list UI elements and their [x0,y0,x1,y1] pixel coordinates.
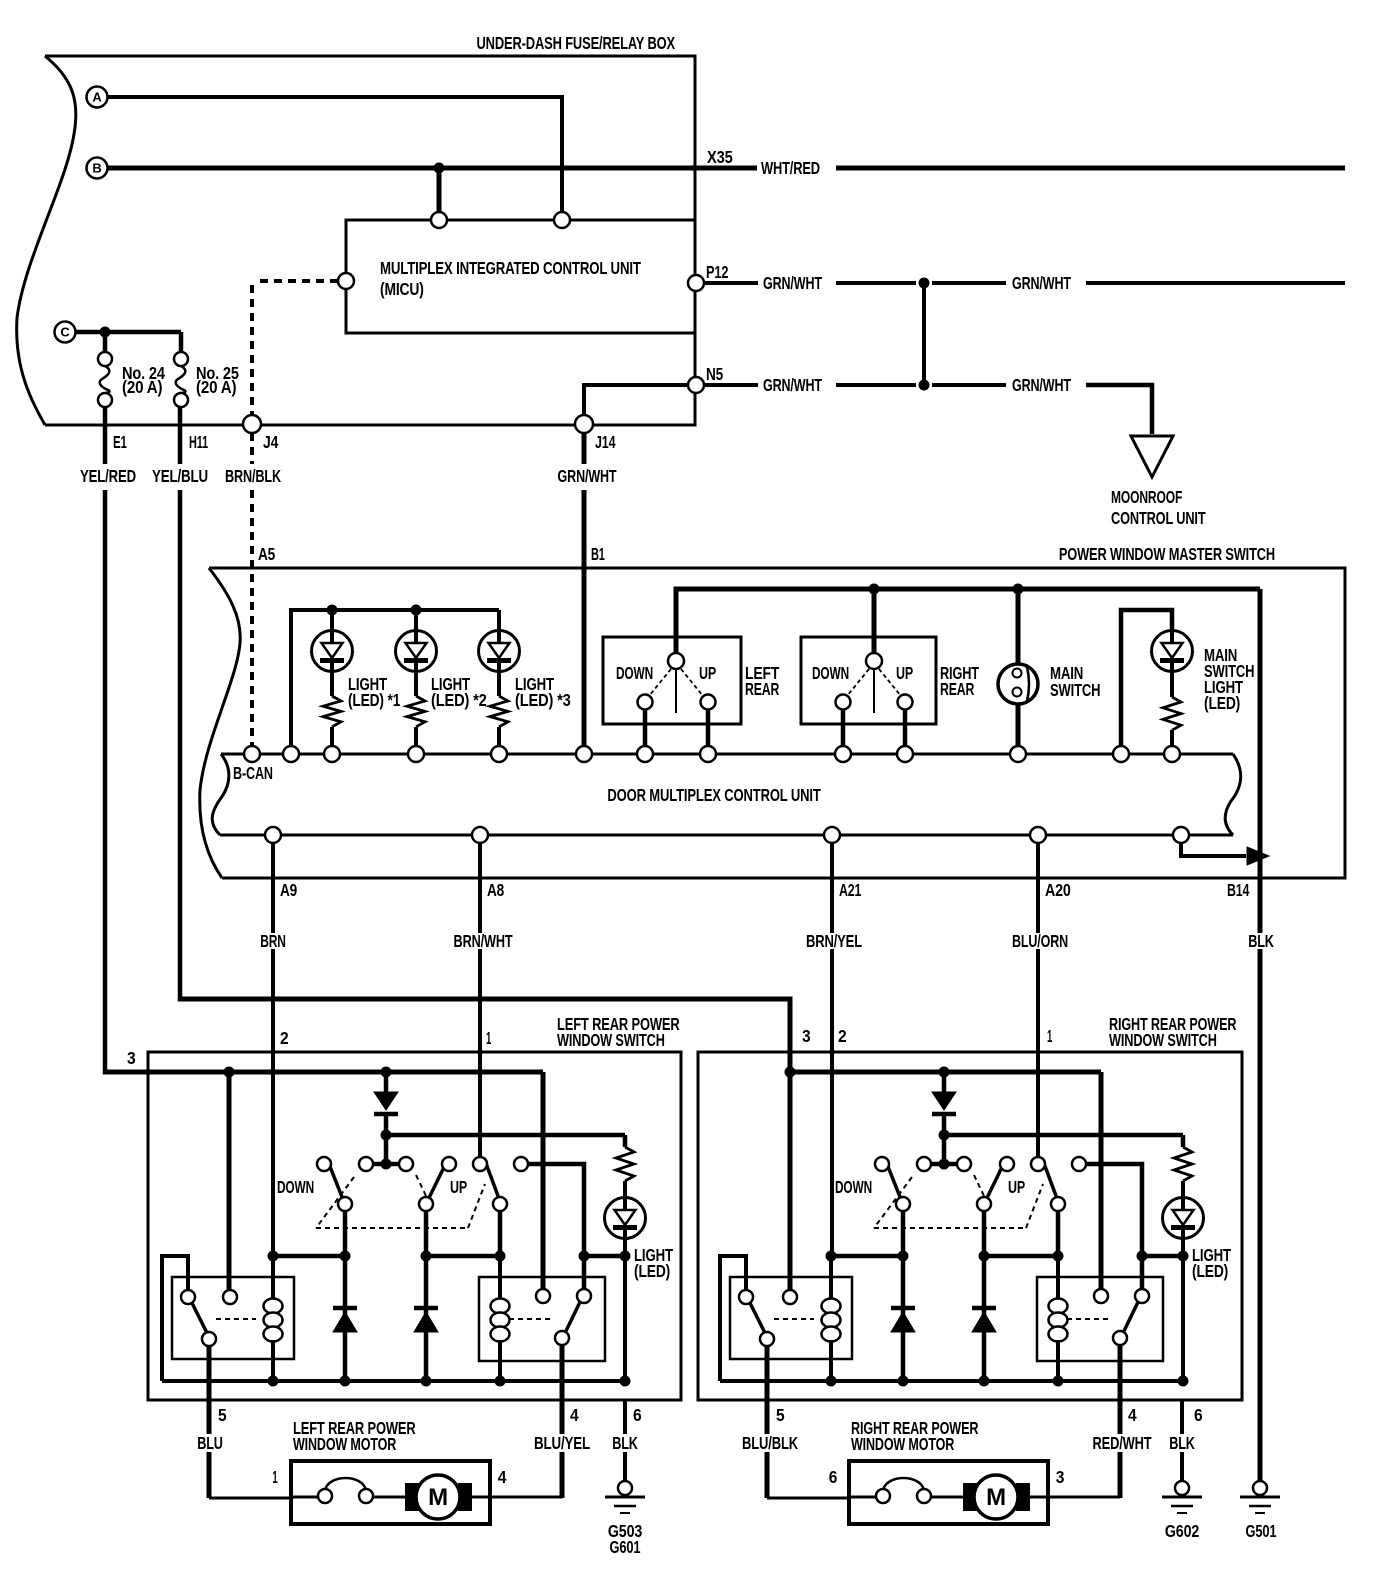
main switch light (LED) [1152,631,1193,672]
resistor of LED3 [497,671,501,696]
relay 1 moving contact (left) [202,1332,216,1346]
svg-text:A: A [92,90,102,105]
LEFT REAR POWER|WINDOW MOTOR box [291,1461,490,1524]
svg-text:BLU/YEL: BLU/YEL [534,1433,590,1453]
RIGHT REAR POWER|WINDOW MOTOR box [849,1461,1048,1524]
svg-text:GRN/WHT: GRN/WHT [763,273,822,293]
multiplex pin A20 [1030,827,1046,843]
svg-text:(LED) *2: (LED) *2 [431,690,487,710]
MICU pin (from B) [431,212,447,228]
resistor of main switch light [1170,671,1174,697]
svg-text:N5: N5 [706,364,723,384]
svg-text:E1: E1 [113,432,127,452]
svg-text:J14: J14 [595,432,616,452]
junction bus/relay B (left) [224,1067,235,1078]
svg-text:(LED) *1: (LED) *1 [348,690,401,710]
svg-text:1: 1 [1047,1026,1052,1046]
wire B14 to ground bus [1181,843,1246,856]
segment1 (left) [273,1254,345,1259]
svg-text:H11: H11 [189,432,208,452]
wire BLU/BLK to right motor [767,1497,849,1500]
svg-text:X35: X35 [707,147,733,167]
svg-text:UP: UP [450,1177,467,1197]
segment1 (right) [831,1254,903,1259]
wire left rear DOWN to unit [643,709,648,747]
contact circles (left) [317,1157,331,1171]
junction main switch [1013,584,1024,595]
switch arm right (right) [1042,1158,1059,1204]
MICU pin (from A) [554,212,570,228]
svg-text:J4: J4 [263,432,279,452]
svg-text:B14: B14 [1227,880,1250,900]
right rear switch lever [873,669,875,713]
svg-text:RED/WHT: RED/WHT [1093,1433,1152,1453]
svg-text:B: B [92,161,101,176]
svg-text:BLU/ORN: BLU/ORN [1012,931,1068,951]
ground G503/G601 [618,1481,632,1495]
resistor of light (left) [616,1147,634,1181]
relay 2 box (right) [1037,1277,1163,1361]
RIGHT REAR POWER|WINDOW MOTOR circuit breaker [849,1496,876,1499]
wire main switch to unit [1016,703,1021,747]
terminal B [87,158,108,179]
terminal 5 wire (right) [765,1346,770,1434]
svg-text:3: 3 [802,1026,811,1046]
svg-text:DOWN: DOWN [812,663,849,683]
wire A20 BLU/ORN [1036,843,1040,933]
relay 2 center contact (right) [1094,1289,1108,1303]
wire H11 YEL/BLU down [178,407,183,464]
relay 2 arm (right) [1124,1302,1138,1331]
wire bus corner down to relay [1099,1072,1104,1289]
wire left rear UP to unit [706,709,711,747]
junction on wire B [434,163,445,174]
svg-text:GRN/WHT: GRN/WHT [558,466,617,486]
svg-text:4: 4 [498,1467,507,1487]
svg-text:A8: A8 [487,880,504,900]
contact bridge (right) [924,1162,964,1167]
junction LED-segment (left) [620,1251,631,1262]
relay 2 coil (left) [498,1256,502,1300]
relay 1 contact B (left) [223,1290,237,1304]
multiplex pin LED1 [324,746,340,762]
multiplex pin (LED feed) [283,746,299,762]
light (LED) *1 [312,631,353,672]
svg-text:BLK: BLK [1169,1433,1195,1453]
svg-text:BRN/YEL: BRN/YEL [806,931,862,951]
multiplex pin light feed [1113,746,1129,762]
wire P12 GRN/WHT [704,281,758,285]
right rear power window switch box [698,1052,1242,1400]
fuse No.25 (20 A) [174,352,188,366]
left rear switch common contact [668,653,684,669]
svg-text:UP: UP [699,663,716,683]
svg-text:UNDER-DASH FUSE/RELAY BOX: UNDER-DASH FUSE/RELAY BOX [477,33,676,53]
fuse No.24 (20 A) [98,352,112,366]
svg-text:(LED): (LED) [1192,1261,1228,1281]
svg-text:4: 4 [570,1405,579,1425]
relay 1 contact A (right) [739,1290,753,1304]
svg-text:B1: B1 [591,544,605,564]
junction coil1-bottom bus (right) [826,1376,837,1387]
relay 1 contact A (left) [181,1290,195,1304]
terminal 4 wire (left) [560,1345,565,1434]
relay 1 dashed actuation (left) [216,1318,256,1320]
left rear switch lever [675,669,677,713]
svg-text:(20 A): (20 A) [196,377,236,397]
left rear switch UP contact [701,695,716,710]
svg-text:WINDOW SWITCH: WINDOW SWITCH [557,1030,665,1050]
multiplex pin left rear DOWN [637,746,653,762]
svg-text:BLU: BLU [197,1433,223,1453]
relay 2 moving contact (right) [1113,1331,1127,1345]
svg-text:G602: G602 [1165,1521,1200,1541]
svg-text:A21: A21 [839,880,862,900]
segment2 (left) [426,1254,500,1259]
wire J14 GRN/WHT down to B1 [582,433,587,464]
diode A up (right) [901,1256,906,1381]
bottom bus (right) [720,1379,1183,1383]
wire BLK to ground G602 [1180,1400,1184,1434]
under-dash fuse/relay box outline [45,56,695,425]
wire to fuse No.24 [103,332,108,352]
connector J14 [575,415,593,433]
svg-text:SWITCH: SWITCH [1050,680,1100,700]
svg-text:P12: P12 [706,262,729,282]
wire bus to diode (left) [384,1072,389,1092]
relay 2 right contact (right) [1135,1289,1149,1303]
junction LED-bottom bus (left) [620,1376,631,1387]
relay 1 coil (right) [829,1256,833,1300]
junction on N5 wire [919,380,930,391]
switch arm UP-left (left) [426,1161,447,1204]
relay 1 coil (left) [271,1256,275,1300]
multiplex pin light return [1164,746,1180,762]
svg-text:POWER WINDOW MASTER SWITCH: POWER WINDOW MASTER SWITCH [1059,544,1275,564]
relay 1 contact A wire (left) [162,1256,188,1381]
pivot wires (right) [901,1211,906,1256]
multiplex pin A21 [824,827,840,843]
pivot circles (right) [896,1197,910,1211]
svg-text:G601: G601 [610,1537,641,1557]
junction LED2 feed [411,605,422,616]
bottom bus (left) [162,1379,625,1383]
wire bus to diode (right) [942,1072,947,1092]
wire diode to LED branch (right) [944,1133,1183,1138]
relay 1 moving contact (right) [760,1332,774,1346]
relay 2 moving contact (left) [555,1331,569,1345]
wire to LED1 [330,610,334,631]
wire BLK to ground G503/G601 [623,1400,627,1434]
svg-text:A20: A20 [1045,880,1071,900]
left rear power window switch box [148,1052,681,1400]
junction P12/N5 tie [919,278,930,289]
right rear switch UP contact [898,695,913,710]
wire diode to LED branch (left) [386,1133,625,1138]
dashed linkage (right) [874,1177,912,1228]
svg-text:(LED): (LED) [1204,693,1240,713]
wire main switch light feed [1121,610,1172,747]
left rear switch DOWN contact [638,695,653,710]
svg-text:BRN: BRN [260,931,286,951]
connector J4 [243,415,261,433]
svg-text:BLU/BLK: BLU/BLK [742,1433,798,1453]
segment3 (left) [584,1254,625,1259]
terminal C [55,322,76,343]
pivot wires (left) [343,1211,348,1256]
relay 1 arm (right) [750,1303,765,1333]
wire N5 to J14 (internal) [584,385,688,415]
relay 2 dashed actuation (right) [1067,1318,1111,1320]
left rear switch box [603,637,741,724]
svg-text:UP: UP [1008,1177,1025,1197]
contact circles (right) [875,1157,889,1171]
relay 2 arm (left) [566,1302,580,1331]
relay 2 right contact (left) [577,1289,591,1303]
segment2 (right) [984,1254,1058,1259]
diode from bus (left) [374,1092,398,1110]
svg-text:2: 2 [838,1026,847,1046]
svg-text:3: 3 [1056,1467,1065,1487]
pivot circles (left) [338,1197,352,1211]
relay 2 dashed actuation (left) [509,1318,553,1320]
svg-text:WINDOW SWITCH: WINDOW SWITCH [1109,1030,1217,1050]
svg-text:DOWN: DOWN [835,1177,872,1197]
multiplex pin right rear UP [897,746,913,762]
B-CAN dashed wire from MICU to J4 [256,279,338,283]
relay 1 box (right) [730,1277,852,1359]
multiplex pin main switch [1010,746,1026,762]
diode B up (left) [424,1256,429,1381]
contact bridge (left) [366,1162,406,1167]
LED panel feed bus [291,610,499,746]
wire N5 GRN/WHT [704,383,758,387]
segment3 (right) [1142,1254,1183,1259]
junction right rear common [869,584,880,595]
door multiplex control unit top edge [221,753,1233,756]
svg-text:5: 5 [776,1405,785,1425]
svg-text:REAR: REAR [940,679,975,699]
wire BLU/YEL to left motor [490,1496,562,1499]
wire c6 to relay2 (right) [1086,1164,1142,1289]
ground G501 [1253,1481,1267,1495]
svg-text:B-CAN: B-CAN [233,763,273,783]
wire tie P12-N5 [922,283,926,385]
svg-text:6: 6 [829,1467,838,1487]
B14 arrow junction [1247,847,1269,865]
svg-text:GRN/WHT: GRN/WHT [1012,273,1071,293]
svg-text:DOOR MULTIPLEX CONTROL UNIT: DOOR MULTIPLEX CONTROL UNIT [607,785,821,805]
multiplex pin LED3 [491,746,507,762]
svg-text:3: 3 [127,1048,136,1068]
dashed B-CAN wire J4 down to master switch [250,433,254,464]
multiplex pin A9 [265,827,281,843]
relay 2 coil (right) [1056,1256,1060,1300]
LEFT REAR POWER|WINDOW MOTOR motor M [405,1483,419,1511]
relay 2 center contact (left) [536,1289,550,1303]
wire to LED2 [414,610,418,631]
right rear switch dashed throws [847,669,869,696]
junction below diode (right) [939,1130,950,1141]
connector N5 [688,377,704,393]
wire B / X35 WHT/RED [108,166,758,171]
junction coil2-bottom bus (right) [1053,1376,1064,1387]
wire A9 BRN [271,843,275,933]
resistor of light (right) [1174,1147,1192,1181]
svg-text:M: M [428,1484,448,1511]
svg-text:5: 5 [218,1405,227,1425]
junction LED-bottom bus (right) [1178,1376,1189,1387]
wire to main switch [1016,589,1021,665]
svg-text:REAR: REAR [745,679,780,699]
relay 1 contact A wire (right) [720,1256,746,1381]
wire right rear DOWN to unit [841,709,846,747]
svg-text:1: 1 [486,1028,491,1048]
wire 3 feed (YEL/BLU) into box [180,999,790,1072]
diode from bus (right) [932,1092,956,1110]
right rear switch common contact [866,653,882,669]
wire right rear UP to unit [903,709,908,747]
svg-text:GRN/WHT: GRN/WHT [1012,375,1071,395]
svg-text:DOWN: DOWN [616,663,653,683]
svg-text:1: 1 [272,1467,277,1487]
MICU box [346,220,695,333]
svg-text:WINDOW MOTOR: WINDOW MOTOR [293,1434,397,1454]
right rear switch box [801,637,936,724]
svg-text:M: M [986,1484,1006,1511]
junction LED1 feed [327,605,338,616]
svg-text:6: 6 [1194,1405,1203,1425]
wire bus corner down to relay [541,1072,546,1289]
wire 3 feed (YEL/RED) into box [105,1070,543,1075]
wire B to MICU [437,168,442,212]
junction bus/diode (right) [939,1067,950,1078]
junction bus/relay B (right) [785,1067,796,1078]
switch arm UP-left (right) [984,1161,1005,1204]
dashed linkage (left) [316,1177,354,1228]
resistor of LED2 [414,671,418,696]
multiplex pin A5/B-CAN [244,746,260,762]
terminal 5 wire (left) [207,1346,212,1434]
svg-text:4: 4 [1128,1405,1137,1425]
relay 2 box (left) [479,1277,605,1361]
switch arm right (left) [484,1158,501,1204]
relay 1 box (left) [172,1277,294,1359]
diode B up (right) [982,1256,987,1381]
master switch common bus [676,589,1260,661]
wire A8 BRN/WHT [478,843,482,933]
svg-text:BLK: BLK [612,1433,638,1453]
svg-text:A5: A5 [258,544,275,564]
svg-text:A9: A9 [280,880,297,900]
svg-text:WHT/RED: WHT/RED [761,158,820,178]
terminal A [87,87,108,108]
wire right rear common [872,589,877,654]
svg-text:BRN/WHT: BRN/WHT [454,931,513,951]
svg-text:BLK: BLK [1248,931,1274,951]
junction bus/diode (left) [381,1067,392,1078]
LEFT REAR POWER|WINDOW MOTOR circuit breaker [291,1496,318,1499]
svg-text:(MICU): (MICU) [380,279,424,299]
svg-text:UP: UP [896,663,913,683]
wire N5 to moonroof control unit [1086,385,1152,434]
wire C [76,330,182,335]
multiplex pin A8 [472,827,488,843]
svg-text:(20 A): (20 A) [122,377,162,397]
left rear switch dashed throws [649,669,671,696]
svg-text:G501: G501 [1246,1521,1277,1541]
MICU pin B-CAN [338,273,354,289]
switch arm DOWN-left (left) [327,1159,344,1202]
wire E1 YEL/RED down [103,407,108,464]
svg-text:WINDOW MOTOR: WINDOW MOTOR [851,1434,955,1454]
wire A [108,97,563,212]
door multiplex control unit bottom edge [220,834,1233,837]
wire BLK B14 down to G501 [1258,589,1263,933]
wire c6 to relay2 (left) [528,1164,584,1289]
svg-text:MULTIPLEX INTEGRATED CONTROL U: MULTIPLEX INTEGRATED CONTROL UNIT [380,258,641,278]
light (LED) (left) [605,1198,646,1239]
wire A21 BRN/YEL [830,843,834,933]
svg-text:(LED) *3: (LED) *3 [515,690,571,710]
moonroof control unit arrow [1131,436,1173,477]
junction LED-segment (right) [1178,1251,1189,1262]
svg-text:BRN/BLK: BRN/BLK [225,466,281,486]
connector P12 [688,275,704,291]
svg-text:DOWN: DOWN [277,1177,314,1197]
multiplex pin left rear UP [700,746,716,762]
multiplex pin LED2 [408,746,424,762]
wire to relay contact B (right) [788,1072,793,1290]
switch arm DOWN-left (right) [885,1159,902,1202]
light (LED) *3 [479,631,520,672]
light (LED) (right) [1163,1198,1204,1239]
svg-text:(LED): (LED) [634,1261,670,1281]
svg-text:MOONROOF: MOONROOF [1111,487,1183,507]
right rear switch DOWN contact [836,695,851,710]
relay 1 dashed actuation (right) [774,1318,814,1320]
power window master switch outline [209,568,1345,878]
svg-text:YEL/RED: YEL/RED [80,466,136,486]
multiplex pin right rear DOWN [835,746,851,762]
light (LED) *2 [396,631,437,672]
wire BLU to left motor [209,1497,291,1500]
svg-text:6: 6 [633,1405,642,1425]
ground G602 [1175,1481,1189,1495]
wire to LED3 [497,610,501,631]
relay 1 arm (left) [192,1303,207,1333]
terminal 4 wire (right) [1118,1345,1123,1434]
svg-text:2: 2 [280,1028,289,1048]
wire to fuse No.25 [179,332,184,352]
junction below diode (left) [381,1130,392,1141]
RIGHT REAR POWER|WINDOW MOTOR motor M [963,1483,977,1511]
resistor of LED1 [330,671,334,696]
main switch [998,664,1038,704]
junction coil2-bottom bus (left) [495,1376,506,1387]
multiplex pin B14 [1173,827,1189,843]
multiplex pin B1 [576,746,592,762]
junction on wire C [100,327,111,338]
svg-text:YEL/BLU: YEL/BLU [152,466,208,486]
svg-text:GRN/WHT: GRN/WHT [763,375,822,395]
wire to relay contact B (left) [227,1072,232,1290]
junction coil1-bottom bus (left) [268,1376,279,1387]
diode A up (left) [343,1256,348,1381]
svg-text:CONTROL UNIT: CONTROL UNIT [1111,508,1206,528]
right box bus [790,1070,1101,1075]
wire RED/WHT to right motor [1048,1496,1120,1499]
